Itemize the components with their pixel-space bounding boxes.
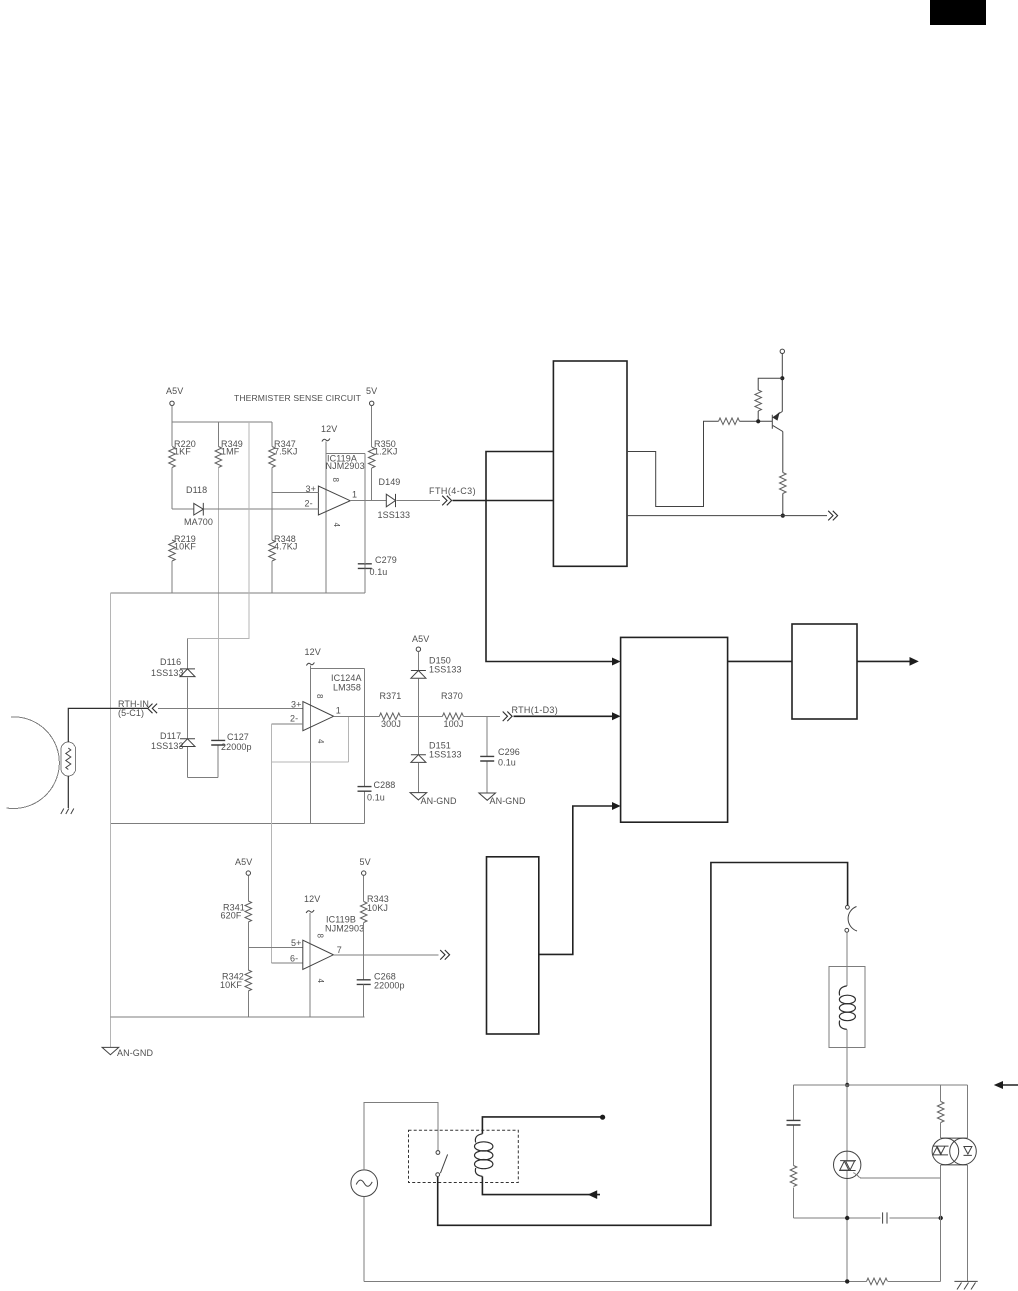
svg-text:1KF: 1KF xyxy=(174,447,191,457)
wire IC119B power rail xyxy=(309,913,311,1017)
wire coil top lead xyxy=(482,1117,600,1134)
wire supply to emitter node xyxy=(781,354,783,412)
svg-text:0.1u: 0.1u xyxy=(498,758,516,768)
black index tab top-right xyxy=(930,0,986,25)
junction dot base node xyxy=(756,419,760,423)
AC source circle xyxy=(351,1170,378,1197)
inductor coil xyxy=(839,986,846,996)
svg-text:A5V: A5V xyxy=(166,386,183,396)
wire small box to box2 xyxy=(539,806,616,954)
relay blade xyxy=(440,1154,447,1173)
svg-text:C279: C279 xyxy=(375,555,397,565)
wire C296 tap xyxy=(486,716,488,793)
wire switch to inductor box xyxy=(846,932,848,986)
wire triac rail xyxy=(846,1085,848,1281)
top section ground bus xyxy=(110,592,365,594)
5V terminal circle xyxy=(362,871,366,875)
svg-text:1SS133: 1SS133 xyxy=(151,668,184,678)
wire IC124A output xyxy=(334,715,380,717)
op-amp U IC119B triangle xyxy=(303,940,334,969)
wire R219 bottom to bus xyxy=(171,561,173,593)
wire top bus xyxy=(172,421,272,423)
svg-text:1.2KJ: 1.2KJ xyxy=(374,447,398,457)
wire C268 to bus xyxy=(363,984,365,1017)
node RTH(1-D3) chevron xyxy=(503,712,512,722)
resistor R342 xyxy=(245,970,252,991)
small box (bottom middle) xyxy=(487,857,539,1034)
output chevron xyxy=(440,950,449,960)
svg-text:NJM2903: NJM2903 xyxy=(325,924,364,934)
svg-text:LM358: LM358 xyxy=(333,683,361,693)
resistor right branch xyxy=(937,1102,944,1123)
arrowhead on coil bottom lead (pointing left) xyxy=(588,1190,598,1199)
svg-text:5V: 5V xyxy=(366,386,377,396)
wire -input feedback loop xyxy=(272,723,303,725)
svg-text:D117: D117 xyxy=(160,731,181,741)
svg-text:1SS133: 1SS133 xyxy=(378,510,411,520)
middle section ground bus xyxy=(110,823,364,825)
wire -input from feedback rail xyxy=(272,962,303,964)
wire 12V to package xyxy=(325,442,327,454)
A5V terminal circle xyxy=(170,401,174,405)
wire RTH(1-D3) to box2 xyxy=(514,715,616,717)
12V tap tick IC119B xyxy=(306,910,314,913)
resistor base series xyxy=(719,418,740,425)
junction dot bottom right xyxy=(939,1216,943,1220)
svg-text:12V: 12V xyxy=(305,647,321,657)
wire R220 to D118 line xyxy=(171,468,173,510)
svg-text:(5-C1): (5-C1) xyxy=(118,708,144,718)
resistor bottom line xyxy=(867,1278,888,1285)
ground hatches 777 xyxy=(957,1283,976,1290)
node RTH-IN chevron xyxy=(148,704,157,714)
svg-text:620F: 620F xyxy=(221,911,242,921)
resistor R341 xyxy=(245,901,252,922)
ground bar bottom right xyxy=(954,1280,977,1282)
wire FTH to box1 xyxy=(453,500,554,502)
svg-text:4.7KJ: 4.7KJ xyxy=(274,542,298,552)
junction dot on output xyxy=(781,514,785,518)
svg-text:10KF: 10KF xyxy=(220,980,242,990)
wire thermistor to RTH-IN xyxy=(68,708,148,742)
node FTH(4-C3) chevron xyxy=(442,496,451,506)
thermistor body xyxy=(61,742,76,776)
wire +input from R347 node xyxy=(272,492,318,494)
capacitor C288 xyxy=(358,787,372,792)
resistor R343 xyxy=(360,902,367,923)
wire IC119B output xyxy=(333,954,438,956)
relay coil K xyxy=(475,1134,482,1143)
wire R342 to bus xyxy=(247,991,249,1017)
wire AC bottom lead xyxy=(363,1197,365,1282)
wire R349 rail from bus down to C127 xyxy=(217,422,219,447)
svg-text:RTH(1-D3): RTH(1-D3) xyxy=(512,705,559,715)
wire D117/C127 bottom link xyxy=(188,745,219,778)
resistor collector xyxy=(780,473,787,494)
svg-text:C296: C296 xyxy=(498,747,520,757)
svg-text:300J: 300J xyxy=(381,719,401,729)
wire bottom row left xyxy=(794,1217,941,1219)
resistor R350 xyxy=(368,447,375,468)
capacitor C279 xyxy=(358,564,372,569)
arrowhead into box2 (middle) xyxy=(612,712,621,720)
svg-text:8: 8 xyxy=(316,934,325,939)
dot coil top lead end xyxy=(600,1115,605,1120)
box 2 xyxy=(621,637,728,822)
svg-text:NJM2903: NJM2903 xyxy=(326,461,365,471)
wire thick loop from relay switch xyxy=(438,863,848,1226)
svg-text:5+: 5+ xyxy=(291,938,301,948)
wire right branch xyxy=(940,1085,942,1281)
A5V terminal circle mid xyxy=(416,647,420,651)
wire emitter node to resistor xyxy=(758,378,782,390)
svg-text:3+: 3+ xyxy=(291,700,301,710)
resistor R371 xyxy=(379,713,400,720)
svg-text:MA700: MA700 xyxy=(184,517,213,527)
svg-text:2-: 2- xyxy=(305,499,313,509)
wire thermistor to ground xyxy=(67,776,69,808)
wire box1 upper-left feed xyxy=(486,452,616,662)
wire A5V rail xyxy=(247,875,249,901)
ground AN-GND (D151) xyxy=(410,793,427,800)
diode D118 MA700 xyxy=(194,503,204,516)
wire D150 to line and to D151 xyxy=(417,679,419,755)
svg-text:D116: D116 xyxy=(160,657,181,667)
wire left branch down xyxy=(793,1085,795,1218)
svg-text:2-: 2- xyxy=(290,714,298,724)
wire resistor to base node xyxy=(757,411,759,421)
capacitor left branch xyxy=(787,1120,801,1125)
svg-text:AN-GND: AN-GND xyxy=(421,796,457,806)
wire feedback rail down to IC119B -input xyxy=(271,762,273,963)
ground 777 (thermistor) xyxy=(61,809,74,815)
wire bottom line xyxy=(364,1280,941,1282)
svg-text:10KF: 10KF xyxy=(174,542,196,552)
relay dashed box xyxy=(409,1130,519,1182)
transistor Q (PNP) xyxy=(772,412,783,432)
wire coil bottom lead xyxy=(482,1176,600,1194)
svg-text:C288: C288 xyxy=(374,780,396,790)
opto-triac left circle xyxy=(932,1138,959,1165)
op-amp U IC119A triangle xyxy=(318,486,350,515)
svg-text:1SS133: 1SS133 xyxy=(429,750,462,760)
opto triac symbol xyxy=(932,1146,948,1155)
switch contact circles xyxy=(846,905,850,909)
resistor R348 xyxy=(269,540,276,561)
wire inductor to junction xyxy=(846,1029,848,1085)
diode D150 1SS133 xyxy=(411,671,426,679)
capacitor series (vertical plates) xyxy=(883,1212,887,1223)
arrowhead box3 output xyxy=(910,657,919,666)
junction dot bottom center xyxy=(845,1216,849,1220)
svg-text:C127: C127 xyxy=(227,732,249,742)
resistor R347 xyxy=(269,447,276,468)
wire box1 path to base resistor xyxy=(627,421,719,506)
resistor left branch xyxy=(790,1166,797,1187)
svg-text:22000p: 22000p xyxy=(221,742,252,752)
svg-text:0.1u: 0.1u xyxy=(367,793,385,803)
wire -input line from A5V rail through D118 xyxy=(172,508,318,510)
opto-triac right circle xyxy=(950,1138,977,1165)
svg-text:4: 4 xyxy=(332,523,341,528)
resistor R370 xyxy=(442,713,463,720)
arrowhead pointing left xyxy=(994,1081,1003,1089)
svg-text:R371: R371 xyxy=(380,691,402,701)
wire R347 to +input node xyxy=(271,422,273,493)
resistor R220 xyxy=(169,447,176,468)
bottom-left ground bus xyxy=(110,1016,364,1018)
wire D116/D117 rail xyxy=(187,639,189,778)
diode D116 1SS133 xyxy=(180,669,195,677)
thermistor zigzag xyxy=(66,748,71,770)
capacitor C296 xyxy=(480,756,494,761)
svg-text:5V: 5V xyxy=(360,857,371,867)
wire top horizontal xyxy=(794,1084,968,1086)
wire box2 to box3 xyxy=(728,660,792,662)
wire resistor to output line xyxy=(782,494,784,516)
svg-text:10KJ: 10KJ xyxy=(367,903,388,913)
wire +input xyxy=(248,946,302,948)
wire AC top lead xyxy=(364,1102,438,1170)
junction dot bottom line xyxy=(845,1279,849,1283)
svg-text:7.5KJ: 7.5KJ xyxy=(274,447,298,457)
wire 12V stub xyxy=(309,666,311,669)
svg-text:A5V: A5V xyxy=(412,634,429,644)
wire R371 to R370 xyxy=(400,715,442,717)
A5V terminal circle xyxy=(246,871,250,875)
box 3 xyxy=(792,624,857,719)
wire 5V rail xyxy=(371,406,373,501)
svg-text:IC124A: IC124A xyxy=(331,673,362,683)
svg-text:1: 1 xyxy=(352,490,357,500)
switch blade arc xyxy=(848,907,857,932)
wire D151 to ground xyxy=(417,763,419,793)
arrowhead into box2 (bottom) xyxy=(612,802,621,810)
svg-text:D118: D118 xyxy=(186,485,207,495)
svg-text:1: 1 xyxy=(336,706,341,716)
drum arc xyxy=(7,717,60,809)
triac symbol xyxy=(839,1161,856,1171)
5V terminal circle xyxy=(370,401,374,405)
opto LED triangle xyxy=(964,1147,972,1156)
emitter arrow xyxy=(773,412,780,421)
incoming arrow from right edge xyxy=(1001,1084,1018,1086)
svg-text:THERMISTER SENSE CIRCUIT: THERMISTER SENSE CIRCUIT xyxy=(234,393,362,403)
svg-text:A5V: A5V xyxy=(235,857,252,867)
triac circle xyxy=(834,1151,861,1178)
svg-text:12V: 12V xyxy=(304,894,320,904)
svg-text:22000p: 22000p xyxy=(374,981,405,991)
wire R343 to C268 xyxy=(363,923,365,980)
resistor base-emitter xyxy=(755,390,762,411)
svg-text:AN-GND: AN-GND xyxy=(117,1048,153,1058)
wire RTH-IN to +input xyxy=(158,707,303,709)
relay contact circles xyxy=(436,1151,440,1155)
wire to base xyxy=(740,420,773,422)
12V tap tick IC119A xyxy=(322,439,330,442)
ground AN-GND (left rail) xyxy=(102,1047,119,1054)
12V tap tick IC124A xyxy=(306,663,314,666)
svg-text:8: 8 xyxy=(315,694,324,699)
wire op-amp output xyxy=(350,500,440,502)
wire R348 xyxy=(271,493,273,593)
capacitor C268 xyxy=(357,980,371,985)
wire FTH output line xyxy=(627,515,827,517)
svg-text:1MF: 1MF xyxy=(221,447,240,457)
diode D149 1SS133 xyxy=(386,494,395,507)
wire LED rail xyxy=(967,1085,969,1281)
wire C279 stubs xyxy=(364,560,366,593)
IC119A package outline xyxy=(326,454,365,593)
wire A5V rail down to bus xyxy=(171,406,173,447)
svg-text:12V: 12V xyxy=(321,424,337,434)
wire R370 to chevron xyxy=(463,715,500,717)
diode D151 1SS133 xyxy=(411,755,426,763)
svg-text:1SS133: 1SS133 xyxy=(429,665,462,675)
sine wave xyxy=(356,1180,372,1186)
inductor box xyxy=(829,966,865,1047)
wire box3 output xyxy=(857,660,911,662)
svg-text:6-: 6- xyxy=(290,954,298,964)
ground AN-GND (C296) xyxy=(479,793,496,800)
wire D116 feed from top bus xyxy=(188,422,249,639)
wire A5V to D150 xyxy=(417,651,419,670)
wire left rail (top bus to AN-GND) xyxy=(109,593,111,1047)
resistor R219 xyxy=(169,540,176,561)
wire 5V rail to R343 xyxy=(363,875,365,901)
svg-text:R370: R370 xyxy=(441,691,463,701)
junction dot top xyxy=(845,1083,849,1087)
svg-text:7: 7 xyxy=(337,945,342,955)
svg-text:4: 4 xyxy=(316,739,325,744)
wire collector down xyxy=(782,432,784,473)
resistor R349 xyxy=(215,447,222,468)
capacitor C127 xyxy=(211,740,225,745)
opto top/bottom chords xyxy=(941,1138,968,1165)
junction dot emitter rail xyxy=(780,376,784,380)
supply open circle xyxy=(780,349,784,353)
svg-text:FTH(4-C3): FTH(4-C3) xyxy=(429,486,476,496)
svg-text:100J: 100J xyxy=(444,719,464,729)
diode D117 1SS133 xyxy=(180,739,195,747)
svg-text:1SS133: 1SS133 xyxy=(151,741,184,751)
arrowhead into box2 (top) xyxy=(612,658,621,666)
box 1 xyxy=(553,361,627,566)
svg-text:4: 4 xyxy=(316,979,325,984)
svg-text:8: 8 xyxy=(331,478,340,483)
svg-text:D149: D149 xyxy=(379,477,401,487)
svg-text:0.1u: 0.1u xyxy=(370,567,388,577)
triac gate lead xyxy=(854,1173,941,1178)
wire R341 to R342, 5+ tap xyxy=(247,922,249,970)
output chevron xyxy=(828,511,837,521)
IC124A package outline xyxy=(310,669,364,824)
svg-text:AN-GND: AN-GND xyxy=(490,796,526,806)
op-amp U IC124A triangle xyxy=(303,702,334,731)
